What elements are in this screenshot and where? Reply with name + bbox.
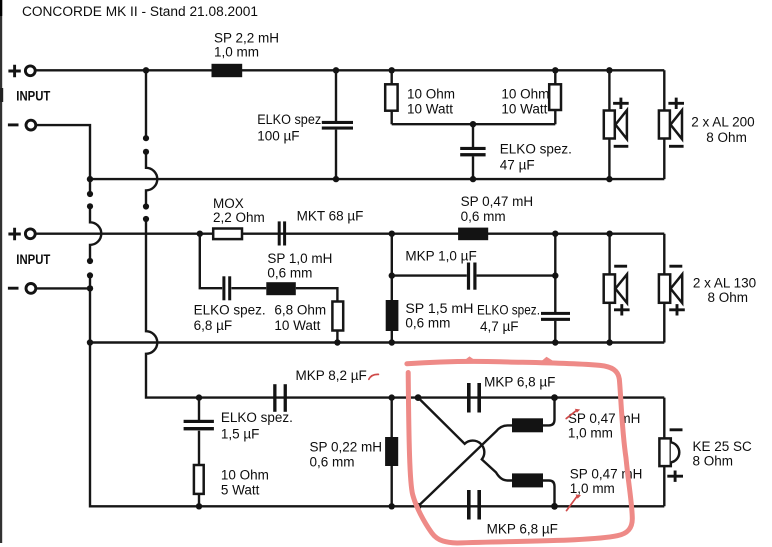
junction top rail / ELKO 100 branch [333,67,339,73]
capacitor ELKO spez. 4,7 uF [541,312,570,321]
svg-text:8 Ohm: 8 Ohm [708,290,749,305]
junction SP1,5 / mid - rail [389,339,395,345]
junction ELKO4,7 / mid - rail [552,339,558,345]
svg-text:KE 25 SC: KE 25 SC [693,439,753,454]
speaker AL130 #1 plus mark [614,304,630,315]
speaker AL130 #2 [659,274,682,303]
junction mid rail / MOX branch [197,231,203,237]
svg-text:2 x AL 200: 2 x AL 200 [691,115,754,130]
input 1 plus terminal [8,65,35,77]
junction bottom feed / ELKO 1,5 branch [196,394,202,400]
input 2 minus terminal [8,284,36,294]
wire: ELKO 1,5 + 10 Ohm branch [198,398,200,507]
svg-text:0,6 mm: 0,6 mm [267,265,312,280]
svg-text:MOX: MOX [213,196,244,211]
inductor SP 0,47 mH (X upper) [512,418,543,432]
junction top rail / R2 branch [552,67,558,73]
resistor MOX 2,2 Ohm [213,229,242,240]
wire: ELKO 100 branch [335,70,337,179]
wire: MKP 1,0 link [392,274,556,276]
svg-text:SP 0,47 mH: SP 0,47 mH [570,467,643,482]
junction X top-right [551,394,558,401]
wire: SP 0,22 branch [391,398,393,507]
junction 6,8 Ohm / mid - rail [334,339,340,345]
speaker AL200 #2 [659,110,682,139]
svg-text:CONCORDE MK II - Stand 21.08.2: CONCORDE MK II - Stand 21.08.2001 [22,4,258,19]
svg-text:6,8 Ohm: 6,8 Ohm [274,303,326,318]
svg-text:0,6 mm: 0,6 mm [461,209,506,224]
wire: top + rail [35,69,664,71]
svg-text:SP 1,5 mH: SP 1,5 mH [405,301,473,316]
resistor 6,8 Ohm 10 Watt [332,302,343,331]
red arrow bump 1 on loop top [461,356,478,363]
resistor 10 Ohm 10 Watt (left) [385,84,397,110]
inductor SP 1,0 mH [266,282,296,295]
capacitor ELKO spez. 47 uF [460,147,485,157]
capacitor MKT 68 uF [278,221,286,245]
wire: ELKO 6,8 branch [200,234,338,343]
wire: resistor bottoms link [392,123,556,125]
jumper dots x=90 upper pair [87,191,93,197]
speaker AL200 #1 plus mark [613,98,629,109]
svg-text:2 x AL 130: 2 x AL 130 [693,276,756,291]
svg-text:0,6 mm: 0,6 mm [310,455,355,470]
junction mid rail / midrange 1 [606,231,612,237]
junction ELKO4,7 branch / MKP 1,0 wire [552,272,558,278]
junction X bottom-right [551,503,558,510]
svg-text:8 Ohm: 8 Ohm [693,453,734,468]
capacitor MKP 1,0 uF [467,263,477,290]
svg-text:INPUT: INPUT [16,252,51,267]
wire: input2 minus lead [36,287,90,289]
svg-text:SP 0,47 mH: SP 0,47 mH [568,411,641,426]
speaker AL130 #2 plus mark [669,304,685,315]
capacitor ELKO spez. 6,8 uF [222,276,231,300]
svg-text:SP 2,2 mH: SP 2,2 mH [214,30,279,45]
speaker AL130 #2 minus mark [669,265,682,268]
tweeter KE 25 SC minus mark [670,428,683,431]
capacitor MKP 8,2 uF [273,384,287,412]
red highlight loop [407,361,632,543]
junction 10 Ohm / bottom rail [196,503,202,509]
inductor SP 0,47 mH (mid) [458,228,488,241]
capacitor MKP 6,8 uF (top) [467,383,481,413]
junction top rail / woofer 1 [606,67,612,73]
svg-text:ELKO spez.: ELKO spez. [477,303,540,318]
red tick near upper SP 0,47 [566,409,580,419]
speaker AL200 #1 [604,110,627,139]
wire: bottom right side down to tweeter [663,398,665,507]
svg-text:MKP 6,8 µF: MKP 6,8 µF [487,522,558,537]
svg-text:1,0 mm: 1,0 mm [570,481,615,496]
jumper dots x=90 lower pair [87,258,93,264]
capacitor ELKO spez 100 uF [322,121,353,130]
red tick near lower SP 0,47 [567,494,582,510]
tweeter KE 25 SC [659,438,679,466]
svg-text:10 Ohm: 10 Ohm [407,87,455,102]
resistor 10 Ohm 5 Watt [194,465,204,494]
capacitor MKP 6,8 uF (bottom) [467,490,481,520]
wire: diagonal B (bottom-left to upper coil) [418,425,512,506]
tweeter KE 25 SC plus mark [667,471,683,482]
inductor SP 2,2 mH [212,64,243,77]
junction X top-left [415,394,422,401]
speaker AL200 #1 minus mark [614,145,629,148]
wire: woofer 1 branch [608,70,610,179]
svg-text:ELKO spez.: ELKO spez. [194,303,266,318]
junction SP 0,22 / bottom rail [389,503,395,509]
svg-text:10 Ohm: 10 Ohm [221,467,269,482]
inductor SP 0,47 mH (X lower) [512,473,543,487]
junction x=90 / mid - rail [87,339,93,345]
svg-text:10 Watt: 10 Watt [501,102,547,117]
svg-text:10 Watt: 10 Watt [407,102,453,117]
wire: upper coil to top wire [543,398,555,426]
inductor SP 0,22 mH [385,437,398,466]
inductor SP 1,5 mH [386,300,399,331]
junction midrange1 / mid - rail [606,339,612,345]
junction mid rail / ELKO 4,7 branch [552,231,558,237]
svg-text:MKP 6,8 µF: MKP 6,8 µF [484,375,555,390]
red tick near MKP 8,2 [369,374,379,379]
speaker AL130 #1 [604,274,627,303]
svg-text:5 Watt: 5 Watt [221,482,260,497]
junction woofer1 / top - rail [606,176,612,182]
junction x=146 / top + rail [143,67,149,73]
junction mid rail / SP1,5 branch [389,231,395,237]
wire: midrange 1 branch [608,234,610,343]
svg-text:10 Ohm: 10 Ohm [501,87,549,102]
speaker AL200 #2 minus mark [669,145,684,148]
junction ELKO 47 / top - rail [470,176,476,182]
wire: top - rail [90,178,664,180]
svg-text:4,7 µF: 4,7 µF [480,319,519,334]
svg-text:2,2 Ohm: 2,2 Ohm [213,210,265,225]
svg-text:100 µF: 100 µF [257,128,299,143]
svg-text:10 Watt: 10 Watt [274,318,320,333]
svg-text:1,0 mm: 1,0 mm [568,426,613,441]
capacitor ELKO spez. 1,5 uF [184,420,214,431]
svg-text:1,5 µF: 1,5 µF [221,427,260,442]
svg-text:47 µF: 47 µF [500,158,535,173]
svg-text:MKP 1,0 µF: MKP 1,0 µF [405,248,476,263]
wire: ELKO 4,7 branch [554,234,556,343]
speaker AL130 #1 minus mark [614,265,627,268]
svg-text:ELKO spez.: ELKO spez. [500,142,572,157]
wire: diagonal A (top-left to lower coil) with hop [418,398,512,481]
svg-text:SP 0,22 mH: SP 0,22 mH [310,439,383,454]
junction x=90 / top - rail [87,176,93,182]
junction top rail / R1 branch [389,67,395,73]
svg-text:0,6 mm: 0,6 mm [405,316,450,331]
junction bottom feed / SP 0,22 [389,394,395,400]
wire: top right side down to woofer 2 [663,70,665,179]
svg-text:ELKO spez: ELKO spez [257,112,321,127]
resistor 10 Ohm 10 Watt (right) [549,84,561,110]
red arrow bump 2 on loop top [539,357,556,364]
wire: mid + rail [35,232,664,234]
junction SP1,5 branch / MKP 1,0 wire [389,272,395,278]
speaker AL200 #2 plus mark [668,98,684,109]
wire: mid/low + feed bus (x=146) with jumpers and hops [145,70,147,138]
svg-text:8 Ohm: 8 Ohm [706,130,747,145]
wire: ELKO 47 branch [472,124,474,179]
svg-text:SP 1,0 mH: SP 1,0 mH [267,251,332,266]
wire: mid - rail [90,341,664,343]
svg-text:MKT 68 µF: MKT 68 µF [297,208,364,223]
wire: SP 1,5 branch [391,234,393,343]
svg-text:6,8 µF: 6,8 µF [194,318,233,333]
junction x=90 / input2 minus [87,285,93,291]
input 1 minus terminal [8,120,36,130]
wire: lower coil to bottom rail [543,481,555,507]
svg-text:MKP 8,2 µF: MKP 8,2 µF [296,368,367,383]
junction ELKO 100 / top - rail [333,176,339,182]
wire: input1 minus bus (x=90) with jumpers and hop [36,125,90,194]
svg-text:1,0 mm: 1,0 mm [214,45,259,60]
wire: R1 branch [391,70,393,124]
jumper dots x=146 upper pair [143,135,149,141]
junction X bottom-left [415,503,422,510]
svg-text:ELKO spez.: ELKO spez. [221,410,293,425]
junction link / ELKO 47 [470,121,476,127]
wire: R2 branch [554,70,556,124]
svg-text:INPUT: INPUT [16,89,51,104]
jumper dots x=146 lower pair [143,203,149,209]
svg-text:SP 0,47 mH: SP 0,47 mH [461,194,534,209]
page edge bar [0,0,2,16]
input 2 plus terminal [8,228,35,240]
wire: mid right side down to midrange 2 [663,234,665,343]
